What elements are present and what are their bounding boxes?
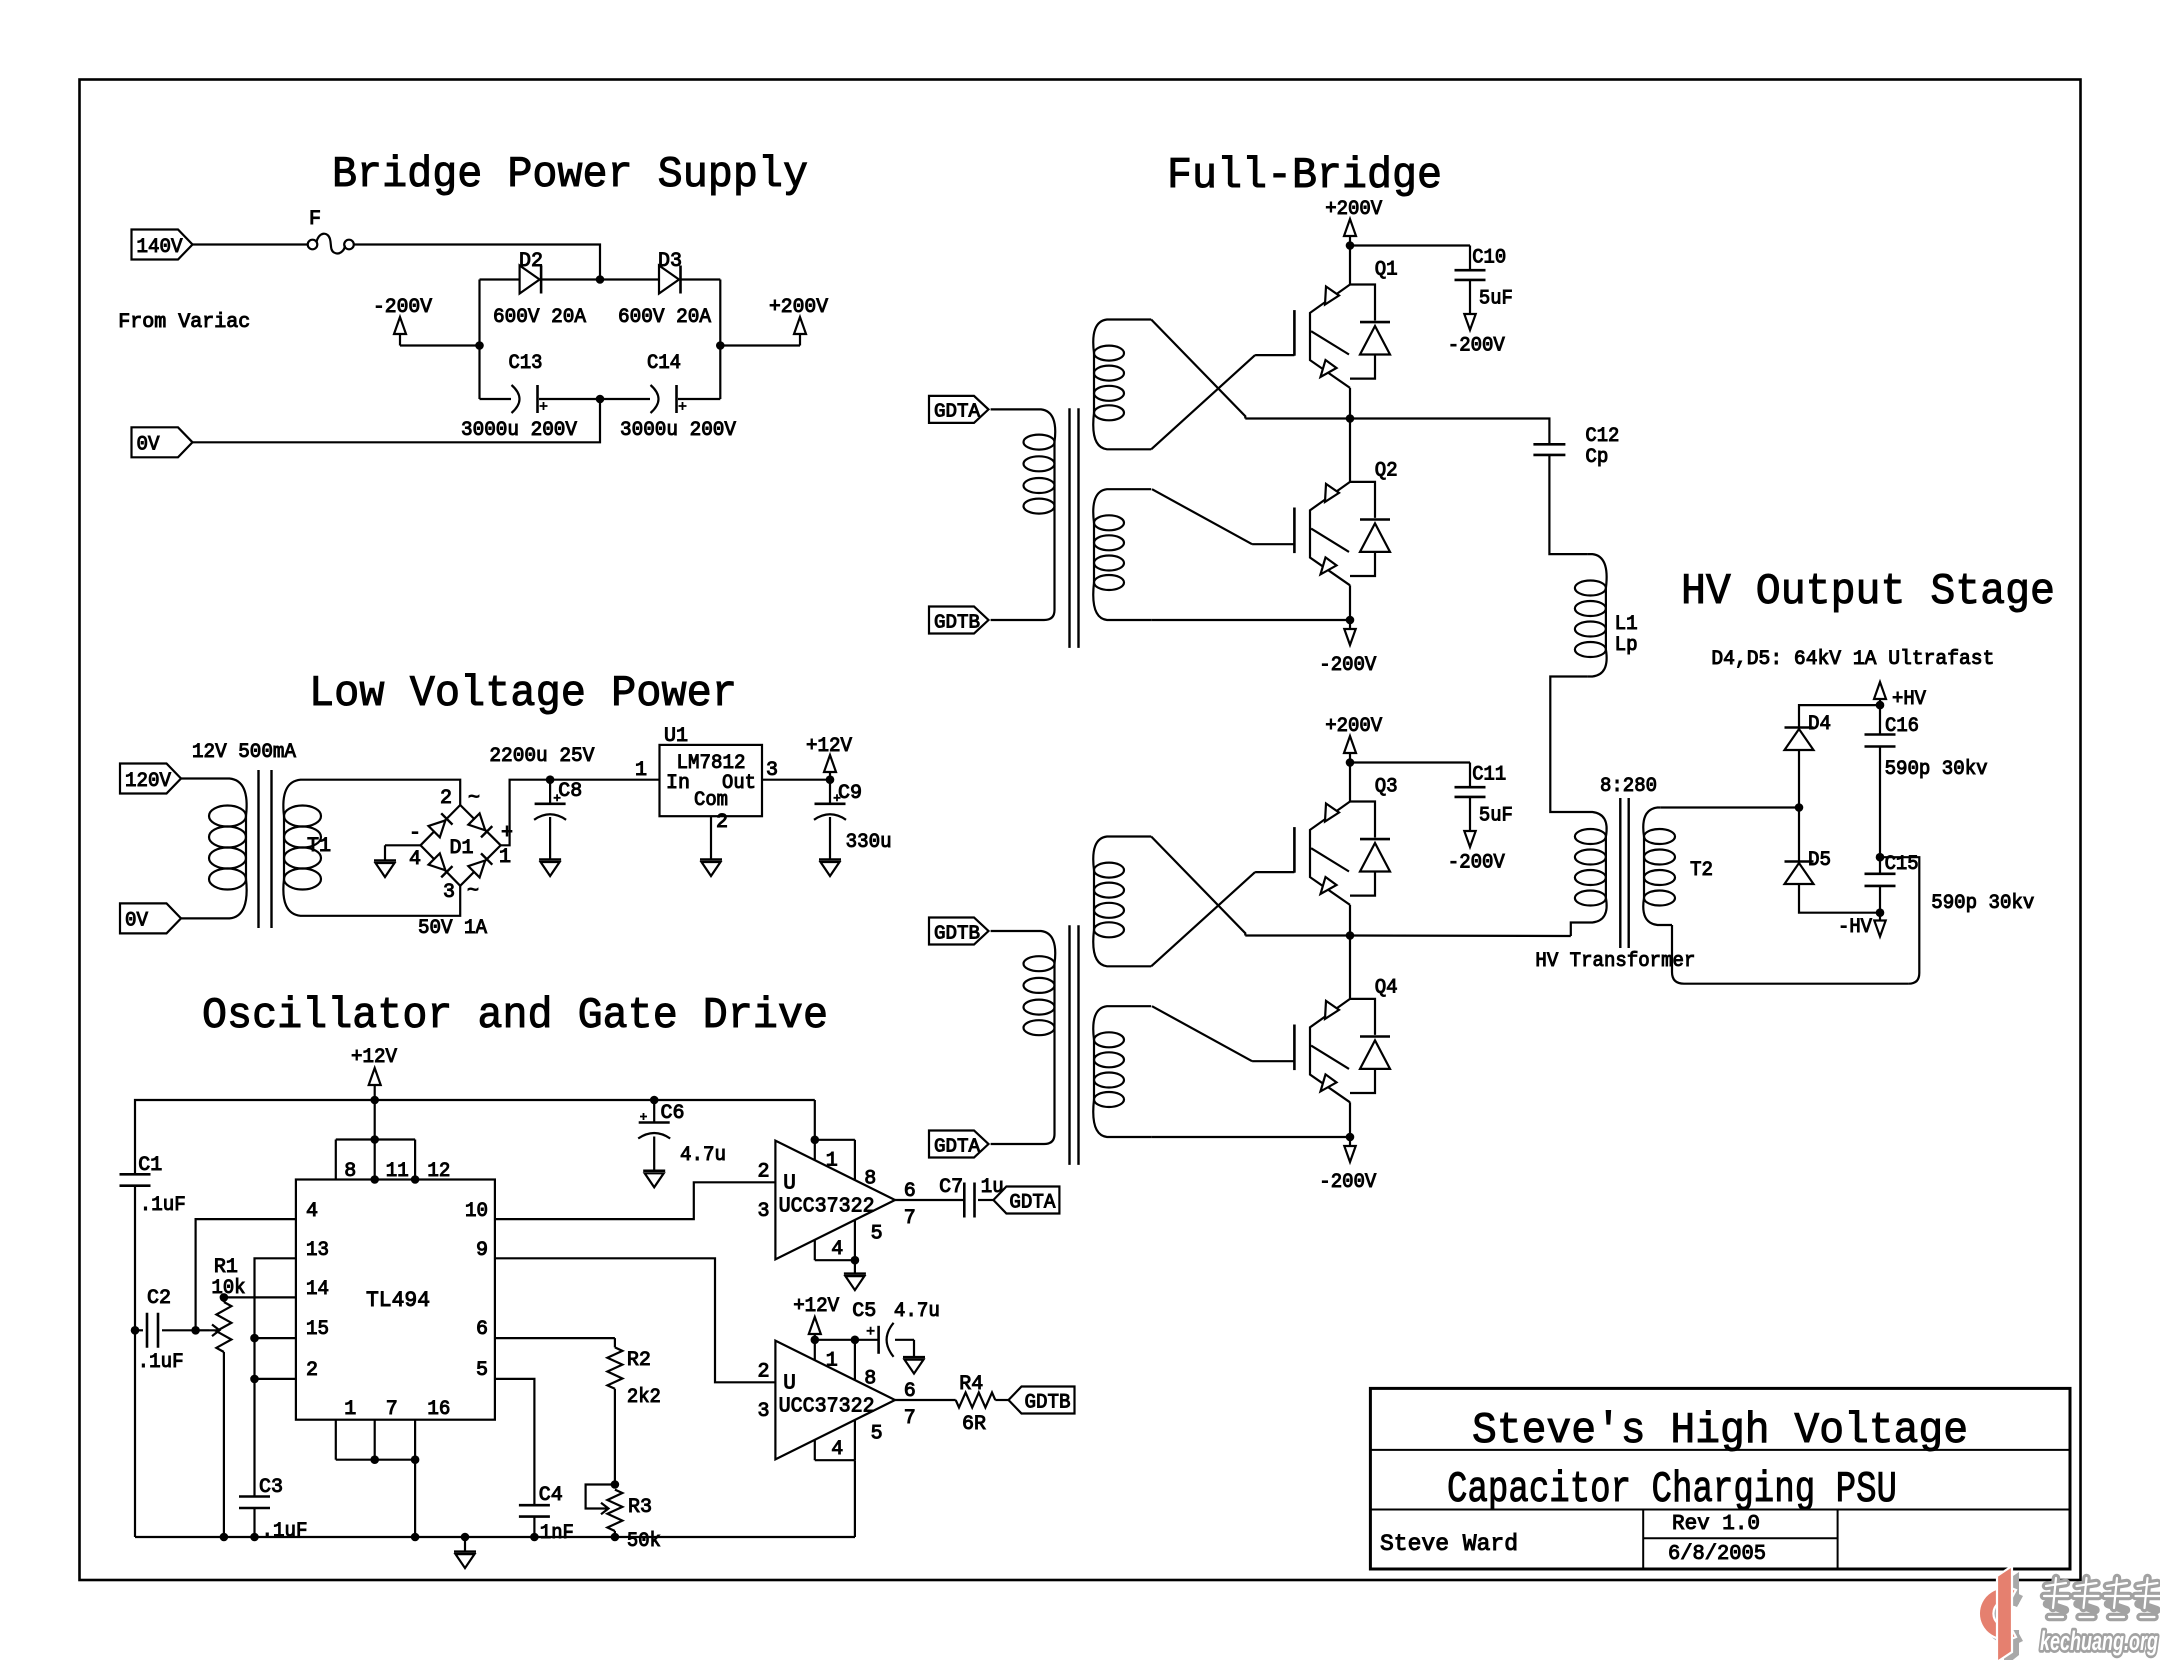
svg-text:140V: 140V [137,236,183,259]
capacitor C8 [549,780,551,804]
title block row divider 1 [1370,1449,2070,1451]
ground after C5 [913,1340,915,1357]
potentiometer R3 50k [607,1490,622,1531]
svg-text:HV Output Stage: HV Output Stage [1681,567,2055,617]
D1 diode bottom-right edge [468,861,485,878]
pins 4 5 ground bar [814,1239,816,1260]
wire 0V to T1 [181,917,214,919]
IGBT Q3 [1349,763,1351,802]
D1 diode top-right edge [468,813,485,830]
svg-text:GDTA: GDTA [1009,1191,1055,1214]
capacitor C9 330u [829,780,831,804]
title block row divider 2 [1370,1509,2070,1511]
svg-text:1nF: 1nF [540,1522,574,1545]
junction at C8 [546,775,555,784]
svg-text:C6: C6 [661,1102,685,1125]
ground below C9 [829,817,831,860]
wire Q3 emitter to phase node [1349,905,1351,936]
wire TL494 pin10 to gate driver A [495,1182,776,1219]
supply arrow -200V bottom [1349,620,1351,629]
capacitor C3 .1uF [239,1497,270,1509]
junction R1 top with pin14 wire [220,1293,229,1302]
inductor L1 Lp [1588,554,1607,588]
svg-text:8:280: 8:280 [1600,775,1657,798]
crossover wire upper secondary to phase rail [1151,320,1245,419]
svg-text:Com: Com [694,789,728,812]
svg-text:C16: C16 [1885,715,1919,738]
diode D3 600V 20A [600,278,659,280]
U1 pin2 to ground [710,816,712,859]
wire T2 secondary top to node X [1661,806,1799,808]
svg-text:3: 3 [443,881,455,904]
junction node X [1795,803,1804,812]
wire Q4 emitter to negative rail [1349,1102,1351,1137]
svg-text:4.7u: 4.7u [894,1300,940,1323]
svg-text:1: 1 [499,846,511,869]
svg-text:-200V: -200V [373,296,432,319]
wire lower secondary bottom to negative rail [1151,619,1350,621]
junction pin11 bar [370,1135,379,1144]
svg-text:F: F [309,208,321,231]
svg-text:590p 30kv: 590p 30kv [1931,892,2034,915]
phase node junction [1346,931,1355,940]
svg-text:Oscillator and Gate Drive: Oscillator and Gate Drive [202,991,828,1041]
junction -200V on left rail [475,341,484,350]
phase node junction [1346,414,1355,423]
svg-text:~: ~ [468,787,480,810]
svg-text:1: 1 [826,1350,838,1373]
svg-text:C8: C8 [558,780,582,803]
capacitor C12 Cp [1533,444,1565,455]
capacitor C15 590p 30kv [1879,857,1881,874]
wire 140V to fuse [193,243,308,245]
svg-text:C3: C3 [259,1476,283,1499]
IC TL494 box [296,1180,495,1420]
svg-text:3: 3 [757,1200,769,1223]
svg-text:.1uF: .1uF [262,1520,308,1543]
transformer T1 12V 500mA primary winding [214,779,247,817]
ground symbol on rail [461,1533,470,1542]
svg-text:6/8/2005: 6/8/2005 [1668,1543,1766,1566]
svg-text:11: 11 [386,1160,409,1183]
svg-text:R1: R1 [214,1256,238,1279]
gate transformer secondary lower [1093,489,1151,523]
svg-text:-200V: -200V [1448,852,1505,875]
svg-text:C4: C4 [539,1484,563,1507]
svg-text:2k2: 2k2 [627,1386,661,1409]
svg-text:TL494: TL494 [366,1288,430,1313]
svg-text:Capacitor Charging PSU: Capacitor Charging PSU [1447,1465,1897,1515]
D1 diode bottom-left edge [429,853,446,870]
svg-text:2: 2 [306,1359,318,1382]
junction node between D2 and D3 [596,275,605,284]
supply arrow +HV [1874,682,1886,699]
svg-text:600V 20A: 600V 20A [493,306,586,329]
svg-text:1: 1 [826,1150,838,1173]
svg-text:330u: 330u [846,831,892,854]
wire TL494 pin2 stub [255,1378,296,1380]
wire C1 bottom to ground rail [134,1186,136,1537]
wire midpoint to T2 secondary bottom [1880,857,1919,973]
wire TL494 pin6 to R2 [495,1337,615,1339]
svg-text:D1: D1 [450,837,474,860]
svg-text:1: 1 [344,1398,356,1421]
svg-text:3000u 200V: 3000u 200V [620,419,736,442]
junction pin15 [250,1334,259,1343]
ground below UCC A [854,1260,856,1273]
svg-text:In: In [666,772,690,795]
wire L1 to T2 primary [1550,677,1588,813]
supply arrow -200V bottom [1349,1137,1351,1146]
junction C16/C15 midpoint [1876,853,1885,862]
wire fuse to bridge top [354,245,600,280]
svg-text:8: 8 [344,1160,356,1183]
net tag GDTA [929,396,989,423]
gate transformer core [1070,925,1079,1165]
voltage regulator U1 LM7812 [660,745,763,816]
svg-text:C13: C13 [509,352,543,375]
ground below C6 [653,1137,655,1171]
capacitor C5 4.7u [855,1339,879,1341]
potentiometer R1 10k [216,1302,231,1352]
svg-text:5: 5 [871,1223,883,1246]
svg-text:C9: C9 [838,782,862,805]
svg-text:GDTB: GDTB [1025,1391,1071,1414]
junction C4 rail [530,1533,539,1542]
svg-text:U: U [783,1173,796,1196]
junction pin7 bar [370,1455,379,1464]
svg-text:~: ~ [467,880,479,903]
wire Q2 emitter to negative rail [1349,585,1351,620]
svg-text:590p 30kv: 590p 30kv [1885,758,1988,781]
crossover wire to upper IGBT gate [1151,872,1255,966]
D1 diode top-left edge [429,820,446,837]
svg-text:600V 20A: 600V 20A [618,306,711,329]
svg-text:+200V: +200V [769,296,828,319]
net tag 140V [132,230,193,260]
svg-text:.1uF: .1uF [140,1194,186,1217]
junction negative rail [1346,1133,1355,1142]
svg-text:-200V: -200V [1319,1171,1376,1194]
fuse F [308,240,318,250]
diode D5 [1798,808,1800,885]
wire T2 primary bottom to phase B rail [1571,923,1588,937]
svg-text:Q1: Q1 [1375,259,1398,282]
phase rail [1245,934,1350,936]
svg-text:4.7u: 4.7u [680,1144,726,1167]
wire 0V to bridge midpoint [193,399,600,442]
gate transformer secondary lower [1093,1006,1151,1040]
supply arrow -HV [1879,913,1881,921]
title block column divider left [1642,1510,1644,1570]
wire TL494 pin4 to C2 node [196,1219,296,1330]
resistor R2 2k2 [607,1347,622,1388]
svg-text:C14: C14 [647,352,681,375]
svg-text:R3: R3 [628,1496,652,1519]
svg-text:120V: 120V [125,770,171,793]
primary exit wire [991,1028,1055,1144]
svg-text:15: 15 [306,1318,329,1341]
svg-text:-200V: -200V [1448,335,1505,358]
svg-text:+12V: +12V [793,1295,839,1318]
svg-text:5uF: 5uF [1479,288,1513,311]
capacitor C6 4.7u [653,1100,655,1123]
svg-text:Q3: Q3 [1375,776,1398,799]
svg-text:2: 2 [440,787,452,810]
gate driver U UCC37322 triangle [775,1341,895,1460]
junction Q3 collector [1346,758,1355,767]
junction pin12 box edge [411,1175,420,1184]
svg-text:-: - [409,822,421,845]
junction -HV node [1876,908,1885,917]
junction R2/R3 node [611,1480,620,1489]
svg-text:C11: C11 [1472,764,1506,787]
svg-text:6: 6 [476,1318,488,1341]
wire C12 to L1 [1549,455,1588,554]
junction UCC A pin1 top [811,1136,820,1145]
svg-text:D4,D5: 64kV 1A Ultrafast: D4,D5: 64kV 1A Ultrafast [1711,648,1994,671]
phase rail [1245,417,1350,419]
svg-text:Q2: Q2 [1375,460,1398,483]
wire TL494 pin13 down the left [255,1258,296,1496]
kechuang watermark logo [1979,1566,2160,1660]
transformer T2 core [1620,798,1628,948]
transformer T1 secondary winding [283,780,316,816]
IGBT Q4 [1349,936,1351,999]
svg-text:GDTA: GDTA [934,1135,981,1157]
crossover wire to lower IGBT gate [1152,489,1252,544]
capacitor C14 3000u 200V [600,398,650,400]
gate transformer core [1070,408,1079,648]
svg-text:Bridge Power Supply: Bridge Power Supply [332,150,808,200]
svg-text:2200u 25V: 2200u 25V [489,745,594,768]
primary exit wire [991,506,1055,620]
wire left rail of bridge loop [478,280,480,400]
net tag GDTB [929,607,989,634]
svg-text:2: 2 [757,1361,769,1384]
svg-text:16: 16 [427,1398,450,1421]
title block rev/date divider [1643,1537,1837,1539]
svg-text:4: 4 [409,848,421,871]
gate driver U UCC37322 triangle [775,1141,895,1260]
svg-text:0V: 0V [137,434,160,457]
title block frame [1370,1388,2070,1569]
svg-text:9: 9 [476,1239,488,1262]
svg-text:C12: C12 [1585,425,1619,448]
wire UCC B output to R4 [895,1399,956,1401]
svg-text:4: 4 [831,1238,843,1261]
diode D2 600V 20A [480,278,520,280]
svg-text:8: 8 [864,1368,876,1391]
crossover wire upper secondary to phase rail [1151,837,1245,936]
svg-text:D5: D5 [1808,849,1831,872]
transformer T1 core [259,770,272,928]
svg-text:2: 2 [716,811,728,834]
IGBT Q1 [1349,246,1351,285]
net tag GDTB output [1009,1387,1075,1414]
svg-text:GDTA: GDTA [934,401,981,423]
net tag GDTB [929,918,989,945]
bridge rectifier D1 diamond [421,805,501,886]
wire UCC A output to C7 [895,1199,964,1201]
svg-text:6R: 6R [962,1413,986,1436]
svg-text:10: 10 [465,1200,488,1223]
svg-text:5: 5 [871,1423,883,1446]
svg-text:3: 3 [766,759,778,782]
gate transformer primary winding [991,931,1056,964]
transformer T2 secondary winding [1643,808,1661,837]
junction C6 on +12V rail [650,1096,659,1105]
svg-text:U: U [783,1373,796,1396]
svg-text:R4: R4 [959,1373,983,1396]
svg-text:14: 14 [306,1278,329,1301]
wire T1 secondary bottom to D1 [316,886,460,916]
svg-text:C2: C2 [147,1287,171,1310]
capacitor C2 .1uF [131,1326,140,1335]
svg-text:Full-Bridge: Full-Bridge [1167,151,1442,201]
pins 4 5 ground bar [814,1439,816,1460]
svg-text:4: 4 [831,1438,843,1461]
svg-text:C15: C15 [1885,853,1919,876]
pins 1 8 supply bar [814,1340,816,1361]
svg-text:UCC37322: UCC37322 [779,1195,875,1218]
svg-text:C1: C1 [138,1154,162,1177]
wire TL494 pin5 to C4 [495,1379,535,1505]
wire lower secondary bottom to negative rail [1151,1136,1350,1138]
junction +200V on right rail [716,341,725,350]
wire TL494 pin9 to gate driver B [495,1258,776,1382]
wire 120V to T1 [181,777,214,779]
svg-text:U1: U1 [664,725,688,748]
svg-text:-200V: -200V [1319,654,1376,677]
svg-text:Rev 1.0: Rev 1.0 [1672,1513,1760,1536]
junction pin4/C2/wiper node [191,1326,200,1335]
resistor R4 6R [956,1393,996,1408]
pins 1 8 supply bar [814,1140,816,1161]
svg-text:3000u 200V: 3000u 200V [461,419,577,442]
svg-text:GDTB: GDTB [934,611,980,633]
gate transformer primary winding [991,409,1056,442]
wire TL494 pin14 to R1 [224,1296,296,1298]
svg-text:+HV: +HV [1892,688,1926,711]
svg-text:2: 2 [757,1161,769,1184]
svg-text:-HV: -HV [1838,916,1872,939]
svg-text:T2: T2 [1690,859,1713,882]
junction R3 bottom rail [611,1533,620,1542]
svg-text:5uF: 5uF [1479,805,1513,828]
wire D1 plus to C8 rail [501,780,660,846]
junction C3 bottom rail [250,1533,259,1542]
svg-text:GDTB: GDTB [934,922,980,944]
svg-text:50k: 50k [627,1530,661,1553]
wire Q1 emitter to phase node [1349,388,1351,419]
svg-text:8: 8 [864,1168,876,1191]
junction between C13 and C14 [596,395,605,404]
svg-text:L1: L1 [1615,613,1638,636]
svg-text:R2: R2 [627,1349,651,1372]
title block column divider right [1837,1510,1839,1570]
capacitor C4 1nF [519,1505,550,1516]
svg-text:UCC37322: UCC37322 [779,1395,875,1418]
capacitor C13 3000u 200V [480,398,512,400]
wire phase A to C12 [1350,419,1549,445]
TL494 top pins 8 11 12 tie bar [374,1100,376,1180]
svg-text:D3: D3 [658,250,682,273]
transformer T2 primary winding [1588,812,1607,837]
junction +12V arrow on rail [370,1096,379,1105]
ground at D1 minus [385,844,421,846]
svg-text:Cp: Cp [1585,446,1608,469]
svg-text:1: 1 [635,759,647,782]
capacitor C7 1u [964,1183,974,1218]
capacitor C16 590p 30kv [1879,705,1881,734]
svg-text:+200V: +200V [1325,715,1382,738]
net tag GDTA [929,1131,989,1158]
junction UCC B pin1 bar [811,1336,820,1345]
crossover wire to upper IGBT gate [1151,355,1255,449]
svg-text:C7: C7 [939,1176,963,1199]
svg-text:4: 4 [306,1200,318,1223]
gate transformer secondary upper [1093,320,1151,354]
wire TL494 pin15 stub [255,1337,296,1339]
svg-text:7: 7 [386,1398,398,1421]
junction UCC B pin8 bar [851,1336,860,1345]
svg-text:5: 5 [476,1359,488,1382]
oscillator ground rail [135,1536,855,1538]
junction pin16 rail [411,1533,420,1542]
wire right rail of bridge loop [719,280,721,400]
snubber cap C at Q3 [1350,761,1470,763]
svg-text:Steve's High Voltage: Steve's High Voltage [1472,1406,1968,1456]
svg-text:7: 7 [904,1407,916,1430]
svg-text:kechuang.org: kechuang.org [2040,1626,2158,1656]
junction +HV node [1876,701,1885,710]
svg-text:+200V: +200V [1325,198,1382,221]
diode D4 [1798,750,1800,808]
gate transformer secondary upper [1093,837,1151,871]
capacitor C1 .1uF [120,1174,151,1185]
svg-text:C5: C5 [852,1300,876,1323]
ground below C8 [549,817,551,860]
svg-text:13: 13 [306,1239,329,1262]
wire U1 out to +12V node [762,779,830,781]
svg-text:Steve Ward: Steve Ward [1380,1531,1518,1557]
net tag 0V (bridge) [132,427,193,457]
snubber cap C at Q1 [1350,244,1470,246]
net tag 120V [120,764,181,794]
svg-text:3: 3 [757,1400,769,1423]
crossover wire to lower IGBT gate [1152,1006,1252,1061]
svg-text:From Variac: From Variac [118,311,250,334]
svg-text:0V: 0V [125,910,148,933]
svg-text:Lp: Lp [1615,634,1638,657]
wire UCC B ground bar to rail [854,1460,856,1537]
svg-text:C10: C10 [1472,247,1506,270]
net tag GDTA output [993,1187,1059,1214]
junction negative rail [1346,616,1355,625]
junction pin16 bar [411,1455,420,1464]
svg-text:+: + [501,822,513,845]
svg-text:Q4: Q4 [1375,977,1398,1000]
IGBT Q2 [1349,419,1351,482]
svg-text:50V 1A: 50V 1A [418,917,487,940]
junction R1 bottom rail [220,1533,229,1542]
+12V rail top of oscillator [135,1100,815,1174]
svg-text:D2: D2 [519,250,543,273]
svg-text:+12V: +12V [351,1046,397,1069]
TL494 bottom pins 1 7 16 tie bar [335,1420,337,1460]
svg-text:12: 12 [427,1160,450,1183]
